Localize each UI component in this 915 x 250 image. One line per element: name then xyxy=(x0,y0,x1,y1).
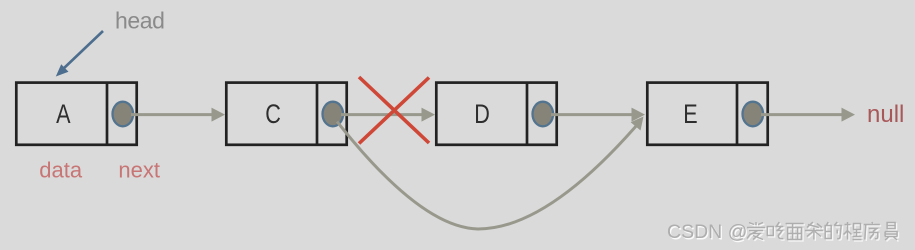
deletion cross X xyxy=(359,77,429,144)
node D box xyxy=(436,83,556,145)
node E pointer dot xyxy=(743,102,764,127)
bypass wire C to E (curved) xyxy=(337,117,644,230)
svg-text:next: next xyxy=(118,158,160,183)
watermark CSDN xyxy=(667,221,749,244)
node D pointer dot xyxy=(533,102,554,127)
wire A to C xyxy=(131,108,225,122)
svg-text:D: D xyxy=(474,100,490,130)
node A box xyxy=(16,83,136,145)
node C pointer dot xyxy=(323,102,344,127)
wire E to null xyxy=(761,108,855,122)
svg-text:head: head xyxy=(115,8,165,34)
watermark CJK glyphs xyxy=(748,223,898,241)
svg-text:A: A xyxy=(56,100,71,130)
svg-text:C: C xyxy=(265,100,281,130)
svg-text:data: data xyxy=(39,158,83,183)
node C box xyxy=(226,83,346,145)
svg-text:CSDN @: CSDN @ xyxy=(667,221,747,243)
wire D to E xyxy=(551,108,645,122)
head arrow xyxy=(56,31,103,77)
node E box xyxy=(647,83,767,145)
svg-text:null: null xyxy=(867,101,904,128)
wire C to D (crossed out) xyxy=(341,108,435,122)
svg-text:E: E xyxy=(683,100,697,130)
node A pointer dot xyxy=(113,102,134,127)
